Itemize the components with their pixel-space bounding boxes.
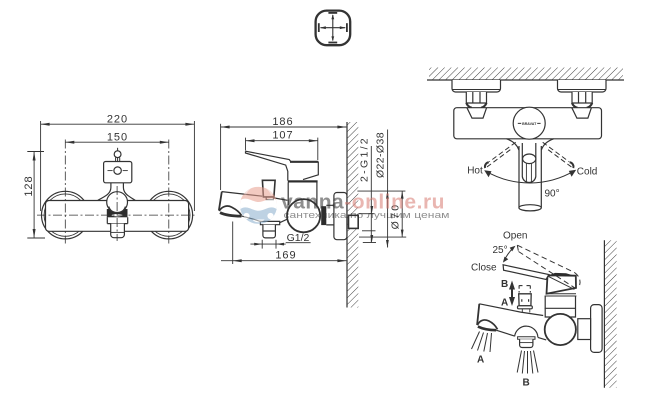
- cartridge dome circle: [107, 192, 128, 213]
- dim 220 ext right: [193, 121, 195, 211]
- arrows 128: [33, 152, 36, 161]
- spout tube: [519, 146, 541, 208]
- lever stem lines: [526, 164, 531, 183]
- BOTTOM-RIGHT VIEW: [472, 240, 617, 387]
- right nut: [572, 92, 592, 103]
- centerline horizontal: [37, 214, 195, 216]
- escutcheon plate: [104, 162, 132, 183]
- lever rear block: [547, 275, 577, 293]
- cap dashes: [518, 122, 541, 124]
- arrows 186: [221, 126, 230, 129]
- handle stem line: [117, 148, 119, 162]
- union circle: [545, 314, 576, 345]
- centerline left circle: [64, 140, 66, 244]
- spray A lines: [472, 332, 492, 353]
- dashed knob: [519, 285, 530, 292]
- svg-text:сантехника по лучшим ценам: сантехника по лучшим ценам: [284, 210, 450, 220]
- svg-text:Cold: Cold: [577, 166, 598, 177]
- body bottom after dome: [538, 337, 546, 340]
- arrows 169: [233, 259, 242, 262]
- collar white lens: [112, 214, 123, 216]
- spout left edge: [219, 192, 222, 211]
- wall hatch right: [604, 240, 616, 387]
- WATERMARK: [240, 181, 450, 224]
- pipe square in wall: [349, 215, 359, 228]
- spout body: [479, 304, 543, 316]
- union dark bar: [321, 206, 326, 225]
- arrows G1/2: [254, 243, 262, 246]
- svg-text:A: A: [501, 298, 508, 309]
- arrows 107: [246, 139, 255, 142]
- G1/2 dim line: [250, 243, 285, 245]
- dim 128 ext bottom: [27, 237, 45, 239]
- svg-text:Ø22-Ø38: Ø22-Ø38: [375, 132, 387, 178]
- arc arrowheads: [484, 170, 491, 177]
- dome inner arc: [109, 207, 126, 213]
- dim 107 line: [246, 140, 318, 142]
- dim 169 ext: [232, 222, 234, 265]
- icon tick bars: [318, 23, 320, 32]
- top icon group: [316, 11, 351, 46]
- right boss: [572, 108, 592, 118]
- svg-text:G1/2: G1/2: [287, 232, 310, 244]
- arrows 220: [41, 123, 50, 126]
- union nut circle: [287, 199, 320, 232]
- arrows 150: [65, 141, 74, 144]
- spout beak base: [478, 327, 496, 331]
- body bottom edge: [496, 330, 514, 336]
- handle screw circle: [114, 151, 121, 158]
- neck and shoulders: [98, 183, 135, 201]
- cartridge band: [288, 180, 318, 182]
- dim 186 ext left: [220, 124, 222, 190]
- wall edge line: [346, 122, 348, 308]
- left escutcheon plate: [452, 80, 501, 92]
- TOP-RIGHT VIEW: [427, 68, 624, 211]
- dim 128 line: [33, 152, 35, 239]
- body bar: [46, 201, 189, 232]
- AB double arrow: [509, 281, 515, 307]
- svg-text:B: B: [501, 279, 508, 290]
- spout beak bump: [219, 206, 241, 215]
- wall escutcheon side: [334, 193, 347, 240]
- wall line: [603, 240, 605, 387]
- SIDE VIEW (middle): [219, 122, 358, 308]
- dim 107 ext right: [317, 138, 319, 160]
- right escutcheon circle inner: [148, 194, 190, 236]
- svg-text:150: 150: [107, 131, 128, 143]
- svg-text:186: 186: [272, 116, 293, 128]
- svg-text:90°: 90°: [545, 188, 560, 199]
- left nut: [466, 92, 486, 103]
- ceiling hatch: [429, 68, 623, 81]
- svg-text:Close: Close: [471, 263, 497, 274]
- cap circle: [513, 107, 545, 139]
- G1/2 underline: [286, 242, 311, 244]
- solid lever: [503, 265, 549, 280]
- svg-text:128: 128: [23, 175, 35, 196]
- body block tilted: [545, 296, 575, 317]
- svg-text:B: B: [523, 378, 530, 389]
- wall escutcheon: [591, 305, 603, 353]
- svg-text:Hot: Hot: [467, 166, 483, 177]
- dim 150 line: [65, 141, 169, 143]
- connector: [578, 319, 591, 340]
- dim 128 ext top: [27, 151, 44, 153]
- svg-text:A: A: [477, 355, 484, 366]
- spout block: [107, 217, 127, 223]
- right tick 242: [363, 242, 376, 244]
- dim 169 line: [221, 260, 346, 262]
- lever hole ellipse: [523, 154, 536, 164]
- body bottom to circle: [280, 217, 292, 223]
- diverter knob: [519, 294, 532, 306]
- logo circle: [240, 181, 277, 224]
- FRONT VIEW dimensions: [27, 121, 194, 238]
- svg-text:25°: 25°: [493, 245, 508, 256]
- union pipe lines: [326, 205, 334, 225]
- plate screw circle: [114, 167, 121, 174]
- outlet body: [263, 225, 276, 238]
- right ext line top: [357, 190, 405, 192]
- right centerline tick: [359, 213, 374, 215]
- arrows right dims: [370, 206, 373, 214]
- FRONT VIEW centerlines: [37, 140, 195, 244]
- 90 arc: [486, 171, 575, 183]
- svg-text:107: 107: [272, 130, 293, 142]
- lever rear dark cap: [548, 273, 576, 276]
- left escutcheon circle outer: [42, 191, 90, 239]
- wall strip: [347, 122, 358, 308]
- dashed lever left: [485, 142, 516, 168]
- spout beak base: [220, 213, 241, 217]
- outlet flange: [260, 221, 279, 224]
- svg-text:220: 220: [107, 113, 128, 125]
- SIDE VIEW dimensions: [221, 124, 407, 264]
- dim line A 2-G1/2: [370, 146, 372, 243]
- right escutcheon circle outer: [145, 191, 193, 239]
- right escutcheon plate: [558, 80, 607, 92]
- cartridge band: [545, 294, 577, 296]
- dark collar band: [107, 209, 128, 217]
- dim 220 line: [41, 123, 195, 125]
- G1/2 ticks: [261, 240, 263, 249]
- body bar: [454, 108, 602, 139]
- body sides: [288, 183, 317, 206]
- lever handle: [246, 151, 319, 180]
- lever: [522, 143, 536, 182]
- 25 arc: [504, 248, 514, 262]
- svg-text:Open: Open: [503, 231, 527, 242]
- centerline right circle: [168, 140, 170, 244]
- spout bottom edge: [241, 216, 260, 222]
- svg-text:BRAVAT: BRAVAT: [522, 122, 537, 126]
- spray B lines: [517, 351, 538, 374]
- dim line B: [387, 130, 389, 248]
- flares: [507, 139, 554, 150]
- dim 107 ext left: [245, 138, 247, 151]
- icon horizontal arrow line: [321, 15, 346, 41]
- svg-text:169: 169: [275, 249, 296, 261]
- dim line C: [401, 191, 403, 237]
- right ext line bottom: [359, 236, 406, 238]
- aerator: [111, 224, 125, 238]
- shower outlet: [518, 337, 535, 339]
- svg-text:2-G1/2: 2-G1/2: [358, 136, 370, 182]
- dashed lever right: [543, 142, 574, 168]
- 25 arc arrowheads: [510, 246, 516, 252]
- stem sides: [115, 157, 117, 161]
- plate screw cross ticks: [108, 170, 113, 172]
- left boss: [467, 108, 487, 118]
- top-view icon rounded square: [316, 11, 351, 46]
- FRONT VIEW (left): [42, 148, 193, 239]
- dim 186 line: [221, 126, 347, 128]
- wall line: [427, 79, 624, 81]
- diverter knob top: [262, 180, 275, 197]
- open lever dashed: [517, 245, 580, 288]
- lever rear top edge: [290, 161, 318, 163]
- spout beak bump: [477, 320, 497, 329]
- left escutcheon circle inner: [44, 194, 86, 236]
- dim 220 ext left: [40, 121, 42, 211]
- spout top edge: [222, 192, 262, 197]
- shower dome: [515, 326, 538, 337]
- centerline middle column: [116, 186, 118, 241]
- tube bottom ellipse: [519, 205, 541, 211]
- icon arrowheads: [318, 12, 348, 43]
- right tick 231: [362, 230, 376, 232]
